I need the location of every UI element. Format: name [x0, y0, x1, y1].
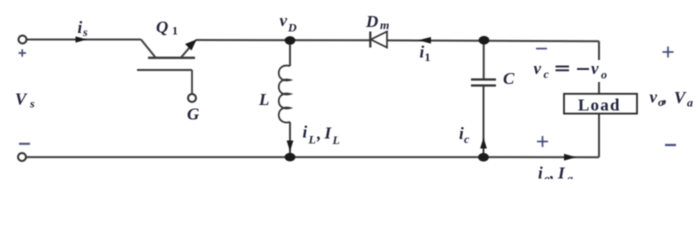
svg-text:v: v: [591, 59, 599, 78]
svg-text:s: s: [29, 97, 35, 111]
svg-text:V: V: [674, 88, 687, 107]
svg-text:,: ,: [549, 164, 554, 180]
svg-text:L: L: [258, 90, 269, 109]
svg-text:1: 1: [425, 50, 431, 64]
svg-text:i: i: [303, 123, 308, 142]
svg-text:V: V: [15, 90, 28, 109]
svg-text:v: v: [280, 11, 288, 30]
svg-text:o: o: [601, 68, 607, 82]
svg-text:,: ,: [316, 124, 321, 143]
svg-text:Load: Load: [578, 96, 621, 115]
svg-text:L: L: [332, 133, 340, 147]
svg-text:s: s: [82, 25, 88, 39]
svg-text:I: I: [557, 164, 566, 180]
svg-text:m: m: [380, 18, 389, 32]
svg-text:c: c: [464, 132, 470, 146]
svg-text:i: i: [538, 164, 543, 180]
svg-text:1: 1: [172, 24, 178, 38]
svg-text:i: i: [78, 18, 83, 37]
svg-text:Q: Q: [156, 18, 168, 37]
svg-text:v: v: [534, 59, 542, 78]
svg-text:D: D: [365, 12, 378, 31]
svg-text:a: a: [567, 172, 573, 180]
svg-text:,: ,: [662, 88, 667, 107]
svg-text:v: v: [650, 88, 658, 107]
svg-text:a: a: [687, 96, 693, 110]
svg-text:c: c: [544, 67, 550, 81]
svg-text:C: C: [503, 69, 515, 88]
svg-text:D: D: [287, 21, 297, 35]
svg-text:L: L: [308, 133, 316, 147]
svg-text:I: I: [324, 124, 333, 143]
svg-text:G: G: [187, 105, 200, 124]
